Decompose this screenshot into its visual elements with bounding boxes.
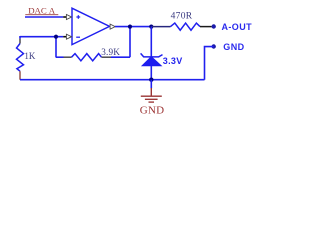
pin stub + input: [63, 16, 66, 18]
resistor 1K (vertical zigzag): [17, 44, 24, 72]
pin stub - input: [63, 36, 66, 38]
node junction zener tap: [149, 25, 153, 29]
wire zener top vertical: [150, 27, 152, 57]
svg-text:DAC: DAC: [28, 5, 47, 15]
wire feedback horizontal right: [111, 56, 130, 58]
pin 470R right: [200, 26, 212, 28]
wire op-amp output horizontal: [115, 26, 151, 28]
svg-text:GND: GND: [140, 104, 164, 116]
wire zener bottom vertical: [150, 66, 152, 80]
wire inverting-input horizontal: [20, 36, 63, 38]
ground symbol bar 3: [149, 101, 155, 103]
wire GND port to bottom rail: [205, 47, 214, 80]
op-amp U1 triangle: [72, 8, 110, 44]
wire ground stub down: [150, 80, 152, 89]
node junction feedback tap: [128, 25, 132, 29]
port dot A-OUT: [212, 24, 216, 28]
pin 470R left: [151, 26, 170, 28]
svg-text:A: A: [49, 5, 56, 15]
wire feedback left vertical: [55, 37, 57, 58]
resistor 3.9K (horizontal zigzag): [72, 54, 102, 61]
pin R3.9K right: [102, 56, 112, 58]
node junction on inverting input: [54, 35, 58, 39]
op-amp plus sign: [76, 15, 80, 19]
pin arrow output: [110, 24, 115, 29]
zener diode D1 cathode bar: [141, 53, 163, 57]
svg-text:3.3V: 3.3V: [163, 56, 183, 66]
zener diode D1 triangle: [142, 57, 162, 66]
pin R3.9K left: [64, 56, 72, 58]
svg-text:A-OUT: A-OUT: [222, 22, 253, 32]
pin R1K top: [19, 39, 21, 44]
ground symbol stub: [150, 88, 152, 96]
pin arrow + input: [66, 15, 71, 20]
pin R1K bottom: [19, 71, 21, 80]
svg-text:470R: 470R: [171, 12, 193, 22]
wire feedback right vertical up to output: [129, 27, 131, 58]
svg-text:GND: GND: [223, 42, 244, 52]
pin arrow - input: [66, 34, 71, 39]
wire bottom ground rail: [20, 79, 205, 81]
svg-text:1K: 1K: [24, 51, 36, 61]
wire feedback horizontal left: [56, 56, 64, 58]
ground symbol bar 1: [141, 95, 162, 97]
node junction zener anode / ground rail: [149, 78, 153, 82]
ground symbol bar 2: [145, 98, 158, 100]
op-amp minus sign: [76, 36, 80, 38]
resistor 470R zigzag: [171, 23, 201, 30]
wire DAC_A net (top horizontal to op-amp + input): [25, 16, 63, 18]
svg-text:3.9K: 3.9K: [101, 47, 120, 57]
underline of DAC A label: [25, 14, 58, 16]
port dot GND right: [212, 44, 216, 48]
wire left vertical (to R 1K top): [19, 36, 21, 39]
